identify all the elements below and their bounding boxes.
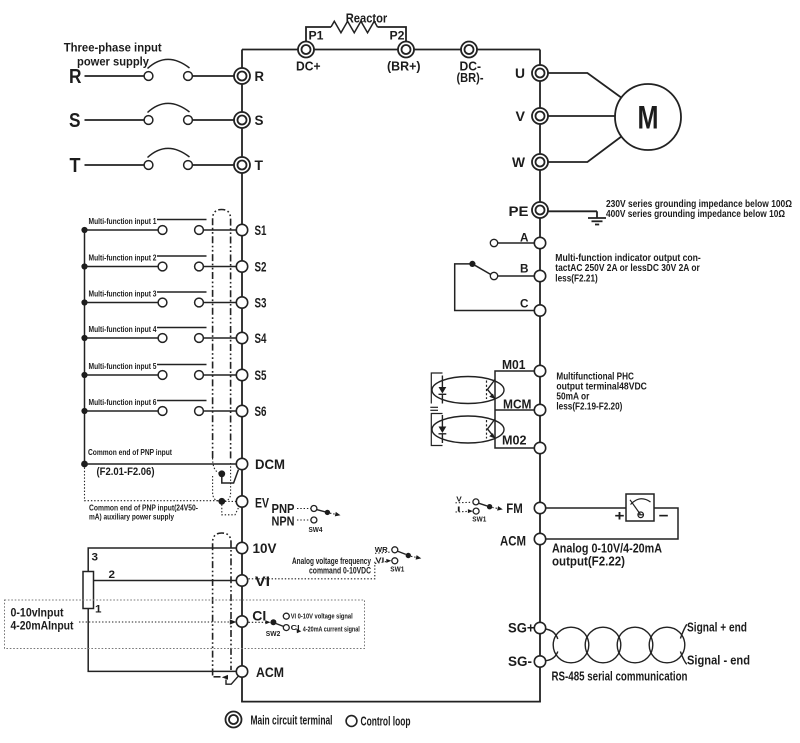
- svg-text:B: B: [520, 263, 529, 275]
- svg-text:Common end of PNP input: Common end of PNP input: [88, 448, 172, 457]
- svg-text:Three-phase input: Three-phase input: [64, 41, 162, 55]
- switch blade 5: [157, 364, 207, 366]
- terminal S4: [236, 332, 247, 343]
- svg-text:S: S: [255, 113, 264, 128]
- svg-text:V: V: [516, 109, 526, 124]
- svg-text:VI: VI: [255, 574, 270, 589]
- terminal ACM right: [534, 533, 545, 544]
- bracket PHC top: [431, 373, 442, 404]
- wire S2 feed: [85, 266, 159, 268]
- terminal S6: [236, 405, 247, 416]
- switch 3 contacts: [158, 298, 167, 307]
- terminal 10V: [236, 542, 247, 553]
- svg-text:400V series grounding impedanc: 400V series grounding impedance below 10…: [606, 209, 785, 220]
- svg-text:W: W: [512, 155, 525, 170]
- terminal V: [532, 108, 548, 124]
- terminal M02: [534, 442, 545, 453]
- switch 5 contacts: [158, 371, 167, 380]
- wire S5 feed: [85, 374, 159, 376]
- svg-text:R: R: [69, 66, 82, 88]
- wire to S1: [203, 229, 236, 231]
- svg-text:less(F2.19-F2.20): less(F2.19-F2.20): [556, 402, 622, 413]
- wire S to terminal: [192, 119, 234, 121]
- wire S3 feed: [85, 302, 159, 304]
- legend: control loop: [346, 716, 357, 727]
- svg-text:S: S: [69, 110, 81, 132]
- wire S6 feed: [85, 410, 159, 412]
- breaker S arc: [148, 103, 190, 112]
- svg-text:Control loop: Control loop: [361, 713, 411, 728]
- terminal MCM: [534, 404, 545, 415]
- wire SG+ entry: [546, 629, 558, 639]
- wire R to terminal: [192, 75, 234, 77]
- terminal T: [234, 157, 250, 173]
- wire R feed: [85, 75, 145, 77]
- svg-text:RS-485 serial communication: RS-485 serial communication: [552, 669, 688, 683]
- node: junction S5: [81, 372, 87, 378]
- terminal S: [234, 112, 250, 128]
- wire PHC bus: [495, 371, 534, 448]
- wire pot bottom to ACM: [88, 609, 236, 672]
- terminal ACM left: [236, 666, 247, 677]
- wire relay common to C: [455, 264, 535, 311]
- U1 LED: [441, 376, 443, 388]
- terminal P1: [298, 42, 314, 58]
- wire SW1b arrow: [411, 556, 416, 557]
- wire: dotted PNP common to EV: [85, 468, 219, 501]
- svg-text:Common end of PNP input(24V50-: Common end of PNP input(24V50-: [89, 504, 198, 513]
- svg-text:Analog voltage frequency: Analog voltage frequency: [292, 556, 371, 566]
- terminal FM: [534, 502, 545, 513]
- node SW4 pole: [325, 510, 330, 515]
- wire: dotted VI link to SW1: [249, 562, 375, 579]
- switch SW2 blade: [276, 624, 284, 627]
- switch 6 contacts: [158, 407, 167, 416]
- switch SW4 leads: [297, 508, 311, 510]
- wire U to motor: [548, 73, 621, 98]
- switch blade 6: [157, 400, 207, 402]
- terminal VI: [236, 575, 247, 586]
- switch SW1b lead WR: [375, 552, 391, 553]
- svg-text:Signal + end: Signal + end: [687, 619, 747, 634]
- wire SW1a arrow: [492, 507, 497, 510]
- svg-text:S3: S3: [255, 295, 267, 310]
- wire to S2: [203, 266, 236, 268]
- svg-text:3: 3: [92, 552, 99, 564]
- bracket PHC ticks: [430, 406, 438, 408]
- svg-text:T: T: [255, 158, 264, 173]
- wire: P2 riser: [378, 27, 407, 42]
- meter arc: [631, 499, 651, 505]
- svg-text:VI: VI: [375, 555, 384, 564]
- svg-text:SG+: SG+: [508, 620, 535, 635]
- svg-text:SG-: SG-: [508, 654, 532, 669]
- shield: analog cable screen: [213, 533, 231, 676]
- wire S feed: [85, 119, 145, 121]
- switch blade 3: [157, 291, 207, 293]
- node SW1a pole: [487, 504, 492, 509]
- switch blade 4: [157, 327, 207, 329]
- node: shield drain dot DCM: [218, 470, 225, 477]
- arrow into CI: [230, 619, 237, 624]
- svg-text:U: U: [515, 66, 525, 81]
- twisted pair loop 2: [585, 627, 621, 663]
- wire: P1 riser: [306, 27, 331, 42]
- svg-text:0-10vInput: 0-10vInput: [11, 605, 64, 619]
- wire: shield stub at ACM: [214, 676, 221, 678]
- terminal CI: [236, 616, 247, 627]
- terminal P2: [398, 42, 414, 58]
- node: shield drain dot EV: [218, 498, 225, 505]
- U2 LED: [441, 415, 443, 427]
- wire PE to ground: [548, 210, 597, 212]
- meter M1 box: [626, 494, 654, 521]
- svg-text:(BR)-: (BR)-: [457, 71, 484, 85]
- switch SW1a lead V: [456, 501, 472, 504]
- svg-text:SW4: SW4: [309, 525, 324, 534]
- terminal C: [534, 305, 545, 316]
- wire SG- entry: [546, 652, 558, 661]
- terminal PE: [532, 202, 548, 218]
- svg-text:4-20mAInput: 4-20mAInput: [11, 618, 74, 632]
- switch SW4 blade: [317, 510, 325, 512]
- node: junction S2: [81, 263, 87, 269]
- terminal S3: [236, 297, 247, 308]
- svg-text:2: 2: [109, 569, 116, 581]
- breaker T arc: [148, 148, 190, 157]
- wire: dotted drain to EV: [225, 500, 237, 502]
- wire to S3: [203, 302, 236, 304]
- node: junction S1: [81, 227, 87, 233]
- bracket PHC bottom: [431, 414, 442, 446]
- wire: left main vertical: [241, 50, 243, 702]
- node: junction S6: [81, 408, 87, 414]
- terminal W: [532, 154, 548, 170]
- potentiometer body: [83, 572, 94, 609]
- svg-text:+: +: [615, 508, 625, 525]
- terminal EV: [236, 496, 247, 507]
- svg-text:(BR+): (BR+): [387, 60, 421, 74]
- terminal S2: [236, 261, 247, 272]
- wire S4 feed: [85, 337, 159, 339]
- terminal S1: [236, 224, 247, 235]
- svg-text:Multi-function input 4: Multi-function input 4: [89, 325, 157, 334]
- terminal S5: [236, 369, 247, 380]
- switch SW1a lead I: [456, 510, 468, 513]
- node: junction S3: [81, 299, 87, 305]
- wire: top DC bus: [242, 49, 540, 51]
- wire: dotted CI input: [79, 621, 230, 623]
- switch blade 1: [157, 219, 207, 221]
- shield: digital input cable screen: [213, 210, 231, 460]
- svg-text:M01: M01: [502, 357, 526, 372]
- svg-text:command 0-10VDC: command 0-10VDC: [309, 565, 371, 575]
- svg-text:ACM: ACM: [256, 665, 284, 680]
- svg-text:VI 0-10V voltage signal: VI 0-10V voltage signal: [291, 614, 353, 621]
- svg-text:V: V: [456, 494, 462, 503]
- legend: main circuit terminal: [226, 712, 242, 728]
- svg-text:NPN: NPN: [272, 514, 295, 529]
- svg-text:Multi-function input 2: Multi-function input 2: [89, 253, 157, 262]
- wire meter to ACM: [546, 508, 678, 539]
- svg-text:PE: PE: [509, 204, 529, 219]
- svg-text:output(F2.22): output(F2.22): [552, 554, 625, 568]
- wire: right main vertical: [539, 50, 541, 702]
- relay contact B lead: [490, 272, 497, 279]
- switch 1 contacts: [158, 226, 167, 235]
- svg-text:T: T: [70, 155, 81, 177]
- svg-text:(F2.01-F2.06): (F2.01-F2.06): [97, 466, 155, 478]
- terminal R: [234, 68, 250, 84]
- svg-text:DCM: DCM: [255, 457, 285, 472]
- wire: shield hook to ACM: [226, 676, 239, 684]
- switch blade 2: [157, 255, 207, 257]
- svg-text:4-20mA current signal: 4-20mA current signal: [303, 626, 360, 633]
- node: junction DCM: [81, 461, 88, 468]
- wire V to motor: [548, 115, 615, 117]
- relay B pole dot: [469, 261, 475, 267]
- svg-text:Multi-function input 3: Multi-function input 3: [89, 289, 157, 298]
- switch SW2 contacts: [283, 613, 289, 619]
- wire to S5: [203, 374, 236, 376]
- svg-text:SW1: SW1: [390, 564, 404, 573]
- arrow into SW2: [249, 621, 266, 623]
- wire T to terminal: [192, 164, 234, 166]
- terminal SG+: [534, 622, 545, 633]
- shield: dotted screen tail left: [213, 476, 219, 501]
- wire W to motor: [548, 137, 621, 163]
- switch 4 contacts: [158, 334, 167, 343]
- svg-text:P1: P1: [309, 29, 324, 43]
- shield: screen lower curve: [213, 458, 219, 473]
- svg-text:S5: S5: [255, 368, 267, 383]
- svg-text:mA) auxiliary power supply: mA) auxiliary power supply: [89, 512, 174, 521]
- bus: PNP common vertical: [84, 230, 86, 464]
- svg-text:Main circuit terminal: Main circuit terminal: [251, 712, 333, 727]
- wire S1 feed: [85, 229, 159, 231]
- svg-text:CI: CI: [252, 608, 266, 623]
- twisted pair loop 1: [553, 627, 589, 663]
- svg-text:S1: S1: [255, 223, 267, 238]
- svg-text:SW1: SW1: [472, 515, 486, 524]
- svg-text:Multi-function input 6: Multi-function input 6: [89, 398, 157, 407]
- switch SW1b lead VI: [375, 562, 387, 564]
- svg-text:Multi-function input 1: Multi-function input 1: [89, 217, 157, 226]
- switch SW2 pole dot: [270, 619, 276, 625]
- svg-text:Reactor: Reactor: [346, 11, 388, 26]
- box: analog input group: [5, 600, 365, 649]
- switch SW4 contacts: [311, 506, 317, 512]
- U2 phototransistor: [486, 420, 488, 439]
- node SW1b pole: [406, 553, 411, 558]
- wire to S6: [203, 410, 236, 412]
- twisted pair loop 4: [649, 627, 685, 663]
- wire DCM: [85, 463, 237, 465]
- wire: dotted drain hook EV: [222, 505, 240, 515]
- svg-text:P2: P2: [390, 29, 405, 43]
- svg-text:SW2: SW2: [266, 629, 281, 638]
- svg-text:−: −: [659, 507, 669, 524]
- wire: bottom frame: [241, 701, 541, 703]
- svg-text:1: 1: [95, 604, 102, 616]
- wire signal- exit: [680, 652, 686, 665]
- svg-text:Multi-function input 5: Multi-function input 5: [89, 362, 157, 371]
- svg-text:10V: 10V: [253, 541, 277, 556]
- svg-text:EV: EV: [255, 495, 269, 510]
- meter pivot: [638, 512, 644, 518]
- svg-text:M: M: [638, 100, 659, 136]
- resistor: reactor coil: [331, 21, 377, 33]
- svg-text:ACM: ACM: [500, 533, 526, 548]
- switch SW1b contacts: [392, 547, 398, 553]
- wire FM to meter: [546, 507, 626, 509]
- svg-text:S2: S2: [255, 259, 267, 274]
- svg-text:S4: S4: [255, 331, 267, 346]
- motor M: [615, 84, 681, 150]
- breaker T contacts: [144, 161, 153, 170]
- wire T feed: [85, 164, 145, 166]
- svg-text:A: A: [520, 233, 529, 245]
- relay contact A lead: [490, 239, 497, 246]
- switch SW1b blade: [397, 551, 405, 554]
- wire to S4: [203, 337, 236, 339]
- terminal SG-: [534, 656, 545, 667]
- switch SW1a contacts: [473, 499, 479, 505]
- optocoupler U1: [432, 377, 504, 404]
- U1 phototransistor: [486, 381, 488, 400]
- switch 2 contacts: [158, 262, 167, 271]
- terminal A: [534, 237, 545, 248]
- terminal U: [532, 65, 548, 81]
- terminal B: [534, 270, 545, 281]
- breaker R arc: [148, 59, 190, 68]
- breaker S contacts: [144, 116, 153, 125]
- wire 10V feed: [88, 548, 236, 572]
- relay B blade: [475, 265, 491, 274]
- svg-text:DC+: DC+: [296, 60, 321, 74]
- terminal DC-: [461, 42, 477, 58]
- wire: drain hook to DCM: [222, 470, 239, 483]
- svg-text:MCM: MCM: [503, 396, 532, 411]
- terminal M01: [534, 365, 545, 376]
- meter needle: [630, 500, 641, 515]
- svg-text:FM: FM: [506, 501, 523, 516]
- wire VI from pot: [94, 580, 237, 582]
- breaker R contacts: [144, 72, 153, 81]
- svg-text:power supply: power supply: [77, 54, 149, 68]
- node: junction S4: [81, 335, 87, 341]
- switch SW1a blade: [479, 503, 487, 506]
- shield: dotted screen tail right: [225, 463, 231, 501]
- svg-text:less(F2.21): less(F2.21): [555, 273, 598, 284]
- svg-text:M02: M02: [502, 433, 527, 448]
- wire SW4 arrow: [330, 513, 336, 514]
- twisted pair loop 3: [617, 627, 653, 663]
- svg-text:R: R: [255, 69, 265, 84]
- ground symbol: [588, 211, 606, 224]
- wire signal+ exit: [680, 624, 686, 638]
- optocoupler U2: [432, 416, 504, 443]
- terminal DCM: [236, 458, 247, 469]
- svg-text:C: C: [520, 298, 529, 310]
- svg-text:Signal - end: Signal - end: [687, 653, 750, 668]
- svg-text:S6: S6: [255, 404, 267, 419]
